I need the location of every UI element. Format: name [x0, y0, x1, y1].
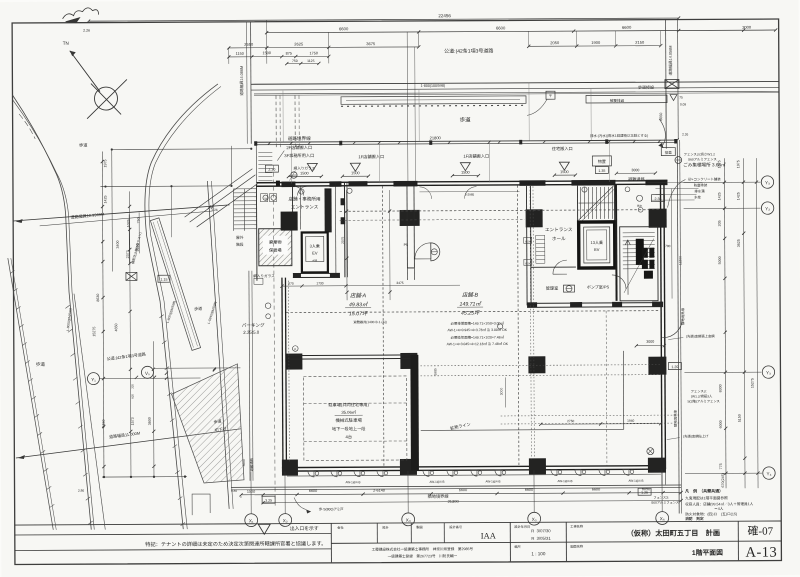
box 1.25 bottom right [638, 488, 651, 495]
gutter rect mid1 [586, 95, 667, 103]
dim small under northwall [419, 190, 519, 193]
east boundary upper line [677, 20, 680, 140]
dashed line v2 [517, 185, 518, 466]
east fence line [677, 140, 679, 513]
toilet door arc [415, 243, 431, 259]
approach diagonal lines [184, 169, 257, 227]
north wall dark seg3 [393, 181, 417, 187]
column bot x3 [529, 458, 546, 474]
bottom dim line2 [263, 501, 681, 503]
grid dotted x533 [530, 186, 531, 459]
upper road width line [13, 205, 230, 221]
small EV inner [306, 236, 324, 261]
tiny sym westwall [265, 303, 271, 309]
core inner door arc [612, 275, 626, 289]
sidewalk guide verticals [282, 91, 284, 142]
left dim bottom line [102, 476, 187, 478]
leader curve hall [527, 99, 547, 115]
revision cloud mark [63, 8, 99, 23]
box 1.20 [668, 363, 681, 370]
title vline 4 [509, 522, 511, 561]
dim row5 small [287, 62, 319, 64]
axis circle Y₃ y184 [761, 176, 773, 188]
entrance triangle t4 [559, 162, 569, 170]
store A label [349, 292, 369, 317]
axis circle Y₃ y374 [762, 366, 774, 378]
column top x3 [526, 209, 543, 227]
interior dim h entrance [282, 285, 346, 287]
big EV walls [579, 222, 615, 268]
amido arrow [294, 497, 306, 509]
box 2.35 right [652, 195, 665, 202]
right axis leader lines [683, 181, 760, 183]
dim 3000 ne [616, 172, 655, 174]
overall dim 22456 [89, 18, 679, 21]
tiny sym east [498, 324, 503, 329]
road boundary double line [254, 140, 677, 142]
dashed line h4 [420, 375, 660, 376]
left dim v drop 129 [128, 214, 130, 263]
column mid x4 [648, 357, 666, 375]
bottom dim line [241, 493, 681, 495]
dim row3 right [529, 45, 661, 48]
west sidewalk vline [255, 145, 257, 183]
entrance door arcs [294, 186, 306, 195]
road line upper [251, 82, 779, 85]
dim row2 line [267, 30, 776, 33]
left dim v drop 112 [111, 150, 114, 272]
approach dashed v1 [275, 96, 277, 150]
outdoor stair treads [233, 189, 256, 231]
partition wall AB [406, 185, 408, 267]
monoki box [592, 156, 611, 166]
left axis leaders [99, 377, 200, 380]
approach dashed v2 [294, 96, 296, 150]
tiny sym parking [293, 346, 299, 352]
axis circle Y₄ y475 [763, 467, 775, 479]
tokki box line1 [15, 533, 331, 535]
box 1.15 [158, 275, 170, 282]
west site boundary [8, 258, 53, 530]
axis circle Y₂ y210 [761, 202, 773, 214]
right dim line c [756, 158, 758, 488]
dashed line v1 [382, 186, 383, 467]
pump black strip [636, 239, 644, 265]
column mid x1a [286, 354, 302, 370]
west curb curve outer [12, 95, 91, 530]
dashed line v3 [605, 311, 608, 466]
column bot x1 [282, 460, 298, 476]
tokki box line2 [15, 549, 331, 551]
dashed line h5 [501, 414, 681, 417]
boundary ticks [290, 142, 293, 145]
bottom axis stems [250, 472, 252, 514]
column top x2 [400, 210, 420, 226]
title vline 1 [376, 523, 378, 543]
equip circle storeA [347, 188, 352, 193]
title vline 3 [443, 523, 445, 543]
left dim line b [129, 191, 130, 476]
title hline mid [331, 541, 781, 543]
setu box [661, 148, 675, 156]
core west wall [525, 186, 528, 305]
exit door arc east [663, 319, 682, 338]
hall boxes [524, 237, 532, 243]
store B label [459, 292, 482, 317]
entrance east wall [343, 182, 345, 277]
boundary small ticks [268, 142, 271, 145]
north wall dark seg1 [281, 182, 295, 188]
dim row3 left [229, 46, 419, 49]
parking room black bar [410, 355, 419, 471]
storefront door arc 1 [419, 187, 431, 199]
pump stair diag [624, 239, 654, 293]
south wall [282, 466, 666, 468]
guide verticals [290, 145, 292, 184]
leader arrow gomi [659, 119, 665, 145]
entrance sw dark block [281, 212, 298, 231]
gutter rect long [341, 96, 526, 104]
west wall parking [282, 278, 283, 471]
road width 14M line right [665, 20, 668, 149]
box 3.25 bottom left [262, 496, 275, 503]
title vline 6 [737, 521, 739, 560]
entrance inner wall black [324, 188, 331, 232]
top dim drop verticals [266, 20, 268, 63]
south site boundary [231, 485, 681, 487]
core bottom wall [527, 302, 663, 305]
kakunetsu line [421, 429, 624, 430]
west wall upper [255, 184, 258, 281]
drain box E4 [546, 91, 555, 99]
north wall dark seg5 [571, 180, 615, 186]
road width 14M line left [250, 22, 253, 144]
column bot x4 [648, 458, 666, 473]
dim 1500 bracket at 565 [554, 174, 575, 176]
dim row4 left [229, 55, 329, 58]
tiny boxes entrance [261, 194, 268, 202]
storefront door arc 2 [464, 187, 476, 199]
hall ladder [536, 235, 545, 263]
parking dash center [273, 166, 275, 506]
small triangle right [670, 95, 677, 101]
sidewalk cut hatch [171, 364, 244, 483]
interior dim v at 390 [388, 190, 391, 300]
lower road width line [16, 429, 241, 458]
dashed line h3 [420, 365, 660, 366]
bowtie mark top right [665, 80, 679, 89]
underline storeA [345, 307, 371, 309]
left axis circle V [141, 366, 153, 378]
left dim h line y185 [100, 185, 231, 188]
dashed line h2 [286, 311, 660, 313]
bottom axis circle X₃ [402, 513, 415, 526]
extra west road line [74, 294, 105, 530]
toilet symbol [431, 243, 440, 261]
dim 1500 bracket at 466 [452, 175, 478, 177]
dashed line h1b [340, 218, 525, 221]
south windows arcs [308, 469, 634, 477]
fence post circle ne [675, 157, 682, 164]
east curb curve outer [144, 84, 220, 529]
left dim line a [102, 152, 104, 477]
mgr room door arc [553, 260, 567, 274]
y1 dim ticks [135, 376, 138, 379]
bottom axis circle X₂ [279, 514, 292, 527]
drain symbol sw [647, 448, 654, 455]
bottom axis circle X₁ [245, 514, 258, 527]
pump arrows [625, 240, 630, 295]
column top x4 [649, 209, 667, 228]
north wall dark seg2 [329, 181, 341, 187]
entrance anchor dot [276, 181, 280, 186]
stair diag break [578, 186, 613, 220]
core inner wall [615, 185, 618, 301]
column bot x2 [400, 459, 417, 475]
left dim v drop 172 [170, 186, 172, 237]
dim 1500 bracket at 305 [288, 175, 321, 177]
exit legend triangle [258, 524, 270, 534]
title vline 5 [565, 522, 567, 561]
east curb curve inner [148, 86, 223, 529]
bottom axis circle X₆ [656, 512, 669, 525]
title vline main [330, 523, 332, 562]
median island strip [150, 218, 200, 351]
left dim line c [152, 341, 155, 476]
box 2.30 [265, 165, 278, 172]
column mid x2 [400, 353, 417, 369]
grid verticals x408 [406, 32, 409, 181]
left bowtie mark [126, 272, 137, 280]
north wall dark seg6 [645, 180, 667, 186]
boundary anchor dots [254, 141, 257, 146]
box 1.35 [595, 166, 608, 173]
waste storage label [263, 236, 288, 255]
entrance step lines [258, 153, 272, 181]
entrance block bottom wall [293, 272, 340, 274]
pump stair treads [623, 233, 655, 269]
approach tick label [208, 205, 211, 208]
mgr equip circle [563, 285, 574, 292]
left axis circle Y1 [87, 373, 99, 385]
hall lower wall [531, 266, 576, 268]
partition lower stub [406, 268, 408, 280]
small EV walls [302, 232, 328, 272]
curb cut outline [192, 494, 210, 515]
dim 1500 bracket at 356 [342, 175, 368, 177]
right dim line b [743, 158, 745, 488]
road line lower [251, 87, 779, 90]
title vline 2 [410, 523, 412, 543]
entrance triangle t2 [350, 163, 360, 171]
left dim h line y148 [111, 148, 251, 151]
stair res treads [578, 187, 613, 219]
curb tick dashes east [159, 315, 185, 526]
west curb curve inner [13, 99, 95, 530]
equip circle ne [637, 195, 643, 201]
entrance side wall [291, 187, 293, 227]
north wall [256, 181, 667, 183]
parking dashed rect [303, 376, 406, 461]
curb tick dashes west [65, 305, 92, 524]
title block top line [15, 521, 781, 525]
interior dotted x288 [287, 281, 290, 463]
big EV inner [584, 227, 610, 263]
left dim v drop 232 [230, 146, 232, 186]
interior dim h mid [346, 284, 460, 287]
dashed line h1 [340, 210, 660, 212]
fence corner tick [676, 138, 679, 141]
entrance vline 301 [299, 187, 301, 230]
north wall dark seg4 [519, 180, 545, 186]
underline storeB [457, 306, 483, 308]
stair res wall [576, 186, 578, 221]
right dim line a [724, 158, 726, 488]
entrance triangle t3 [460, 163, 470, 171]
site boundary west of building [207, 181, 229, 509]
pump room walls [620, 227, 658, 301]
west boundary second line [11, 258, 56, 530]
east wall [660, 181, 662, 469]
survey circle symbol [94, 87, 117, 110]
entrance circle sym [291, 172, 297, 178]
column mid x3 [528, 356, 545, 373]
parking room north wall [286, 354, 417, 357]
interior dim v at 347 [345, 190, 348, 300]
gomi leaders [647, 181, 702, 183]
parking inner dash [304, 402, 407, 405]
dim row under hall [541, 423, 661, 426]
gutter bottom ticks [341, 104, 526, 107]
tiny equip circles [263, 195, 268, 200]
parking west boundary [249, 271, 250, 481]
waste storage hatch [259, 229, 292, 266]
entrance triangle t1 [307, 163, 317, 171]
bottom axis circle X₅ [528, 512, 541, 525]
underline parking [335, 414, 363, 416]
